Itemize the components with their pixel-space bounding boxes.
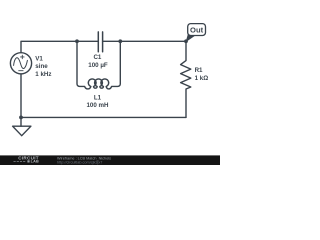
svg-text:1 kHz: 1 kHz	[35, 71, 51, 78]
svg-text:1 kΩ: 1 kΩ	[195, 75, 209, 82]
svg-text:V1: V1	[35, 56, 43, 63]
svg-text:LAB: LAB	[31, 160, 39, 164]
svg-text:100 µF: 100 µF	[88, 62, 108, 69]
svg-text:R1: R1	[195, 67, 203, 74]
svg-text:C1: C1	[93, 54, 101, 61]
svg-text:Out: Out	[190, 26, 204, 35]
svg-text:L1: L1	[94, 95, 102, 102]
svg-text:http://circuitlab.com/cjk3jx7: http://circuitlab.com/cjk3jx7	[57, 160, 102, 164]
svg-text:sine: sine	[35, 63, 48, 70]
svg-text:100 mH: 100 mH	[86, 102, 109, 109]
